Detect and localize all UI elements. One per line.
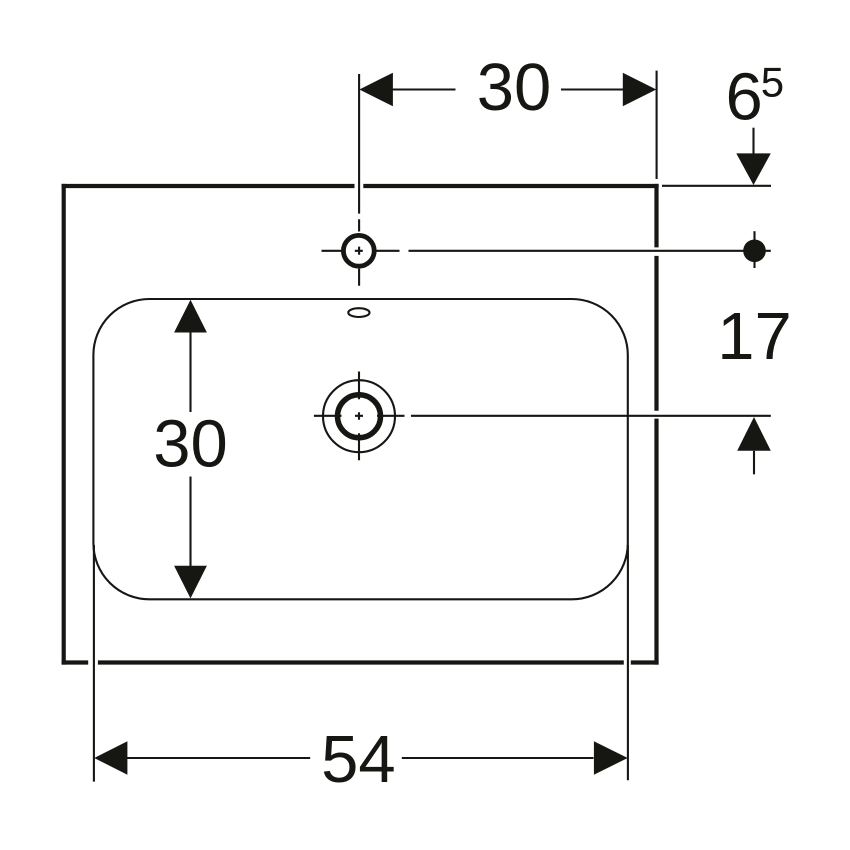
faucet horizontal centerline xyxy=(322,250,400,252)
bottom dim 54: left arrowhead xyxy=(94,741,127,774)
bottom dim 54: dimension line segments xyxy=(127,757,594,759)
top dim 30: dimension line segments xyxy=(393,88,624,90)
basin dim 30: down arrowhead xyxy=(174,566,207,599)
svg-text:54: 54 xyxy=(321,722,396,797)
sink outer outline right edge xyxy=(654,184,658,665)
sink outer outline (thick) top edge xyxy=(62,184,659,188)
svg-text:30: 30 xyxy=(477,50,552,125)
overflow slot ellipse xyxy=(348,308,369,317)
6-5 dim: arrow stem xyxy=(752,128,754,157)
svg-text:17: 17 xyxy=(717,299,792,374)
6-5 dim: down arrowhead xyxy=(736,153,771,185)
basin inner rounded rectangle xyxy=(93,299,627,599)
bottom dim 54: right extension line xyxy=(627,545,629,780)
top dim 30: left arrowhead xyxy=(359,73,393,107)
6-5 dim: top reference line xyxy=(662,185,771,187)
17 dim: up arrowhead xyxy=(737,417,771,451)
top dim 30: right arrowhead xyxy=(623,73,657,107)
basin dim 30: up arrowhead xyxy=(174,300,207,333)
drain horizontal centerline xyxy=(314,415,405,417)
drain vertical centerline xyxy=(358,372,360,461)
drain inner ring (thick) xyxy=(338,395,381,438)
faucet hole circle xyxy=(343,235,374,266)
bottom dim 54: right arrowhead xyxy=(594,741,628,774)
sink outer outline left edge xyxy=(62,184,66,665)
faucet vertical centerline / top 30 extension line xyxy=(358,74,360,286)
drain-to-arrow reference line xyxy=(411,415,771,417)
17 dim: up-arrow stem xyxy=(753,451,755,475)
basin dim 30: vertical dimension line segments xyxy=(189,332,191,567)
faucet reference dot xyxy=(743,240,766,263)
dot crosshair tick xyxy=(753,231,755,268)
svg-text:30: 30 xyxy=(153,406,228,481)
sink outer outline bottom edge xyxy=(62,660,659,664)
drain outer circle xyxy=(323,380,395,452)
bottom dim 54: left extension line xyxy=(93,545,95,782)
faucet-to-dot reference line xyxy=(409,250,771,252)
top dim 30: right extension line xyxy=(656,71,658,179)
